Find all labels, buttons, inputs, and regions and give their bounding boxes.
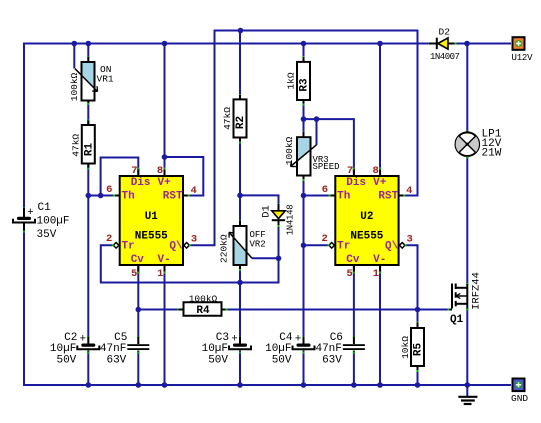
svg-text:10µF: 10µF bbox=[50, 343, 76, 355]
svg-text:U12V: U12V bbox=[512, 53, 534, 63]
svg-text:C1: C1 bbox=[38, 202, 52, 214]
svg-text:50V: 50V bbox=[272, 355, 292, 367]
svg-text:10µF: 10µF bbox=[265, 343, 291, 355]
svg-text:2: 2 bbox=[106, 233, 112, 245]
svg-text:2: 2 bbox=[322, 233, 328, 245]
svg-text:1kΩ: 1kΩ bbox=[286, 72, 297, 89]
svg-text:+: + bbox=[231, 333, 238, 345]
svg-text:U1: U1 bbox=[145, 211, 159, 223]
svg-text:Q\: Q\ bbox=[169, 241, 183, 253]
svg-text:5: 5 bbox=[131, 268, 137, 280]
svg-text:100µF: 100µF bbox=[37, 215, 70, 227]
svg-text:Tr: Tr bbox=[337, 241, 350, 253]
svg-text:V-: V- bbox=[158, 254, 171, 266]
svg-text:63V: 63V bbox=[106, 355, 126, 367]
svg-text:10µF: 10µF bbox=[202, 343, 228, 355]
svg-text:V+: V+ bbox=[158, 177, 172, 189]
svg-text:Q1: Q1 bbox=[450, 314, 464, 326]
svg-text:C4: C4 bbox=[279, 332, 293, 344]
svg-text:1N4148: 1N4148 bbox=[286, 205, 296, 236]
svg-text:Dis: Dis bbox=[131, 177, 151, 189]
svg-text:R1: R1 bbox=[83, 143, 95, 157]
svg-text:C6: C6 bbox=[330, 332, 343, 344]
svg-text:4: 4 bbox=[406, 185, 412, 197]
svg-text:4: 4 bbox=[191, 185, 197, 197]
svg-text:100kΩ: 100kΩ bbox=[284, 136, 295, 165]
svg-text:R5: R5 bbox=[413, 343, 425, 357]
svg-text:RST: RST bbox=[163, 191, 183, 203]
svg-text:47nF: 47nF bbox=[100, 343, 126, 355]
svg-text:100kΩ: 100kΩ bbox=[69, 72, 80, 101]
svg-text:10kΩ: 10kΩ bbox=[400, 336, 411, 359]
svg-text:8: 8 bbox=[157, 165, 163, 177]
svg-text:Cv: Cv bbox=[346, 254, 360, 266]
svg-text:+: + bbox=[80, 333, 87, 345]
svg-text:50V: 50V bbox=[56, 355, 76, 367]
svg-text:3: 3 bbox=[406, 233, 412, 245]
svg-text:Cv: Cv bbox=[131, 254, 145, 266]
svg-text:R4: R4 bbox=[196, 305, 210, 317]
svg-text:5: 5 bbox=[347, 268, 353, 280]
svg-text:3: 3 bbox=[191, 233, 197, 245]
svg-text:R3: R3 bbox=[299, 78, 311, 92]
svg-text:100kΩ: 100kΩ bbox=[189, 294, 218, 305]
svg-text:Th: Th bbox=[122, 191, 135, 203]
svg-text:NE555: NE555 bbox=[350, 231, 383, 243]
svg-text:47kΩ: 47kΩ bbox=[71, 134, 82, 157]
svg-text:+: + bbox=[27, 207, 34, 219]
svg-text:Tr: Tr bbox=[122, 241, 135, 253]
svg-text:6: 6 bbox=[322, 184, 328, 196]
svg-text:D2: D2 bbox=[439, 27, 451, 38]
svg-text:47kΩ: 47kΩ bbox=[222, 107, 233, 130]
svg-text:RST: RST bbox=[378, 191, 398, 203]
svg-text:C5: C5 bbox=[114, 332, 127, 344]
svg-text:35V: 35V bbox=[37, 229, 57, 241]
svg-text:7: 7 bbox=[347, 165, 353, 177]
svg-text:47nF: 47nF bbox=[315, 343, 341, 355]
svg-text:1N4007: 1N4007 bbox=[430, 52, 460, 62]
svg-text:8: 8 bbox=[372, 165, 378, 177]
svg-text:63V: 63V bbox=[322, 355, 342, 367]
svg-text:Q\: Q\ bbox=[385, 241, 399, 253]
svg-text:1: 1 bbox=[373, 268, 379, 280]
svg-text:Th: Th bbox=[337, 191, 350, 203]
svg-text:C2: C2 bbox=[64, 332, 77, 344]
svg-text:R2: R2 bbox=[235, 116, 247, 129]
svg-text:1: 1 bbox=[157, 268, 163, 280]
svg-text:V-: V- bbox=[373, 254, 386, 266]
svg-text:VR1: VR1 bbox=[97, 74, 114, 85]
svg-text:7: 7 bbox=[131, 165, 137, 177]
svg-text:6: 6 bbox=[106, 184, 112, 196]
svg-text:220kΩ: 220kΩ bbox=[219, 234, 230, 263]
svg-text:Dis: Dis bbox=[346, 177, 366, 189]
svg-text:21W: 21W bbox=[482, 148, 502, 160]
svg-text:SPEED: SPEED bbox=[313, 162, 340, 172]
svg-text:+: + bbox=[295, 333, 302, 345]
svg-text:IRFZ44: IRFZ44 bbox=[471, 272, 483, 310]
svg-text:50V: 50V bbox=[208, 355, 228, 367]
svg-text:D1: D1 bbox=[261, 205, 273, 218]
svg-text:U2: U2 bbox=[360, 211, 373, 223]
svg-text:GND: GND bbox=[511, 393, 528, 404]
svg-text:C3: C3 bbox=[216, 332, 229, 344]
svg-text:VR2: VR2 bbox=[250, 239, 266, 249]
svg-text:NE555: NE555 bbox=[135, 231, 168, 243]
svg-text:V+: V+ bbox=[373, 177, 387, 189]
